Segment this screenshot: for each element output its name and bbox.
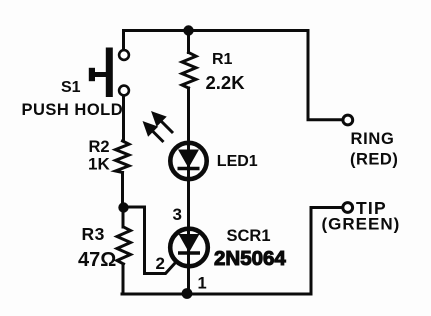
svg-text:R1: R1 xyxy=(212,51,233,68)
svg-text:2.2K: 2.2K xyxy=(206,72,246,93)
svg-text:47Ω: 47Ω xyxy=(78,249,116,271)
svg-text:S1: S1 xyxy=(61,79,81,96)
svg-text:R3: R3 xyxy=(82,224,105,244)
svg-text:LED1: LED1 xyxy=(217,153,258,170)
svg-text:1K: 1K xyxy=(88,155,110,174)
svg-text:SCR1: SCR1 xyxy=(227,227,271,245)
svg-text:2N5064: 2N5064 xyxy=(214,247,286,270)
svg-text:2: 2 xyxy=(156,254,165,273)
svg-text:PUSH HOLD: PUSH HOLD xyxy=(22,101,124,119)
svg-text:R2: R2 xyxy=(89,138,110,156)
svg-text:3: 3 xyxy=(173,205,182,224)
svg-text:(GREEN): (GREEN) xyxy=(322,215,401,234)
svg-text:1: 1 xyxy=(198,275,207,293)
svg-text:(RED): (RED) xyxy=(350,151,398,169)
svg-text:RING: RING xyxy=(351,130,395,148)
